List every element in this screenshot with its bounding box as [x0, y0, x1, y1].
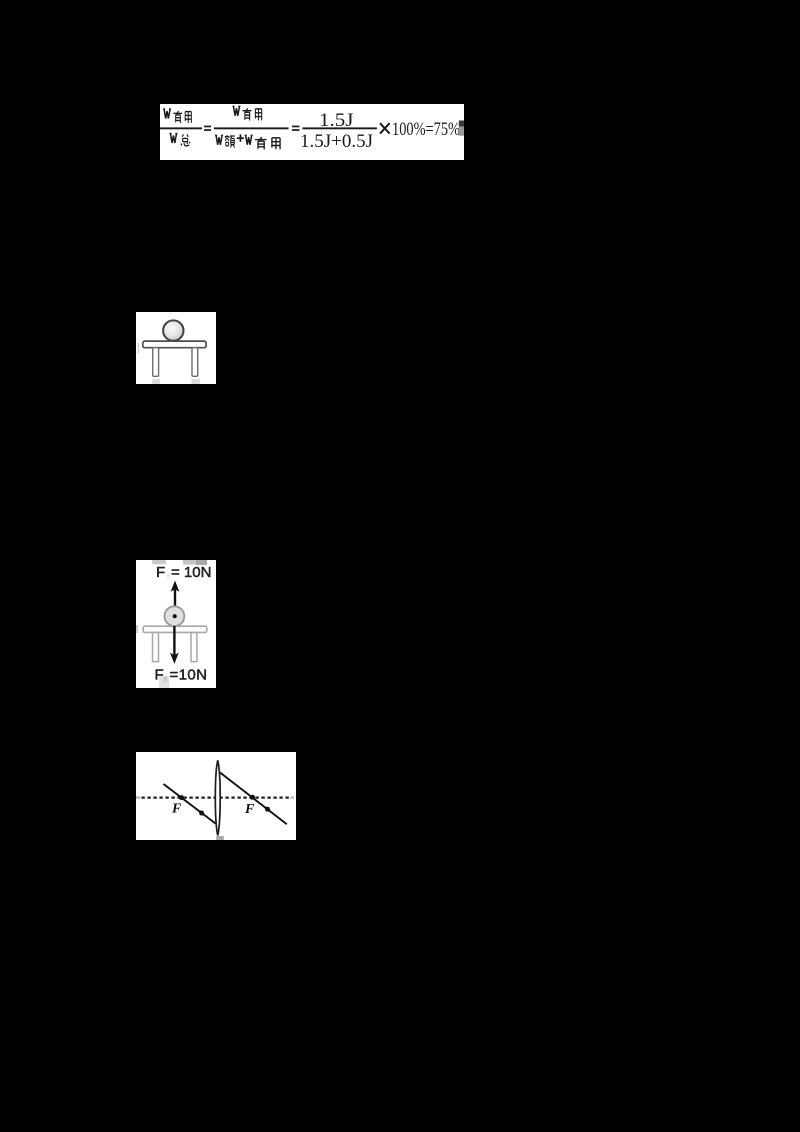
svg-text:=10N: =10N	[170, 667, 208, 684]
optical axis dashed	[141, 796, 289, 798]
arrowhead on right ray	[264, 807, 271, 812]
formula image box (efficiency equation)	[160, 104, 464, 160]
ball	[165, 606, 185, 626]
faint subscript zhong	[159, 676, 170, 688]
fraction 1 numerator: W有用	[163, 109, 171, 119]
ball-on-table image box	[136, 312, 216, 384]
multiplication sign	[380, 123, 390, 133]
svg-text:F: F	[244, 802, 255, 817]
focal point dot left	[179, 795, 184, 800]
fraction 2 numerator: W有用	[232, 106, 240, 116]
svg-text:100%=75%: 100%=75%	[392, 119, 460, 140]
fraction 2 denominator: W额+W有用	[215, 135, 223, 145]
center dot	[173, 614, 177, 618]
table top (gray)	[143, 626, 207, 632]
ball	[163, 320, 183, 340]
table right leg	[192, 348, 198, 377]
svg-text:1.5J: 1.5J	[319, 110, 354, 131]
gray smudges	[152, 560, 166, 564]
equals 2	[292, 126, 300, 128]
table legs (gray)	[153, 632, 159, 661]
svg-text:1.5J+0.5J: 1.5J+0.5J	[300, 131, 373, 152]
table left leg	[153, 348, 159, 377]
lens (thin)	[215, 760, 220, 835]
equals 1	[204, 126, 211, 128]
down arrow	[173, 626, 175, 656]
fraction 1 denominator: W总	[169, 134, 177, 144]
lens ray diagram image box	[136, 752, 296, 840]
fraction 3 bar	[302, 127, 377, 129]
faint subscript zhi	[167, 574, 170, 578]
svg-text:F: F	[171, 802, 182, 817]
cursor block	[459, 121, 464, 127]
arrowhead on left ray	[198, 810, 205, 815]
svg-text:F: F	[156, 564, 165, 581]
up arrow	[174, 589, 176, 617]
incident ray (left)	[164, 784, 216, 824]
force diagram image box	[136, 560, 216, 688]
refracted ray (right)	[220, 773, 287, 825]
focal point dot right	[250, 795, 255, 800]
leg shadows	[152, 379, 160, 384]
table top	[143, 341, 206, 348]
svg-text:= 10N: = 10N	[171, 564, 211, 581]
fraction 1 bar	[160, 127, 202, 129]
fraction 2 bar	[214, 127, 289, 129]
gray block under lens	[216, 836, 224, 840]
